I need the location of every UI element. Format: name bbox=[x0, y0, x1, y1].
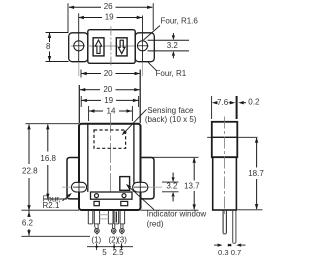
svg-text:(3): (3) bbox=[117, 235, 127, 244]
svg-text:(back) (10 x 5): (back) (10 x 5) bbox=[145, 115, 197, 124]
dimension 3.2 (top view hole height) bbox=[148, 33, 190, 58]
left hole centre extension bbox=[78, 62, 80, 76]
svg-text:(red): (red) bbox=[147, 220, 164, 229]
front view right hole (obround) bbox=[133, 180, 148, 197]
side view right pin bbox=[233, 211, 236, 244]
svg-text:14: 14 bbox=[107, 107, 116, 116]
side view left pin bbox=[223, 211, 226, 234]
top view central body bbox=[88, 30, 135, 64]
tab hole centreline right bbox=[133, 186, 162, 188]
side view parting line bbox=[207, 136, 257, 138]
extension line right (19) / hole centre bbox=[142, 16, 144, 63]
front view window right edge bbox=[133, 125, 135, 192]
pin eyelets bbox=[95, 224, 125, 234]
pin number (1) bbox=[91, 235, 101, 244]
svg-text:(1): (1) bbox=[91, 235, 101, 244]
svg-text:5: 5 bbox=[102, 248, 107, 257]
dimension 14 (front view window width) bbox=[89, 106, 133, 121]
svg-text:2.5: 2.5 bbox=[112, 248, 124, 257]
dimension 16.8 (tab position) bbox=[40, 124, 56, 199]
moulding square left bbox=[94, 201, 99, 205]
dimension 20 (front view width) bbox=[80, 85, 140, 94]
svg-text:0.7: 0.7 bbox=[231, 248, 242, 257]
label Four, R1 bbox=[148, 62, 187, 78]
svg-text:19: 19 bbox=[104, 96, 113, 105]
terminal bar hole 2 bbox=[122, 194, 126, 198]
extension line right (26) bbox=[152, 3, 154, 30]
top view vertical centreline bbox=[110, 27, 112, 67]
svg-text:Indicator window: Indicator window bbox=[147, 210, 207, 219]
svg-text:7.6: 7.6 bbox=[217, 98, 229, 107]
side view vertical centreline bbox=[224, 117, 226, 217]
svg-text:13.7: 13.7 bbox=[184, 181, 200, 190]
svg-text:Sensing face: Sensing face bbox=[147, 106, 194, 115]
front view left tab bbox=[67, 158, 79, 199]
tab hole centreline left bbox=[62, 186, 88, 188]
top view right hole bbox=[137, 41, 148, 51]
dimension 8 (top view width) bbox=[46, 33, 69, 62]
right hole centre extension bbox=[142, 62, 144, 76]
top view right mounting tab bbox=[135, 33, 154, 62]
svg-text:Four, R1: Four, R1 bbox=[156, 69, 187, 78]
indicator window rectangle bbox=[120, 177, 130, 191]
top view left mounting tab bbox=[69, 33, 88, 62]
tab bottom extension line bbox=[44, 198, 67, 200]
side view lower body outline bbox=[213, 157, 237, 210]
label Indicator window (red) bbox=[126, 184, 207, 229]
svg-text:0.3: 0.3 bbox=[218, 248, 229, 257]
front view left hole (obround) bbox=[72, 180, 87, 197]
svg-text:3.2: 3.2 bbox=[166, 181, 178, 190]
dimension 6.2 (pin length) bbox=[22, 211, 34, 236]
terminal bar bbox=[91, 192, 133, 199]
svg-text:18.7: 18.7 bbox=[248, 169, 264, 178]
sensing face dashed rectangle bbox=[94, 130, 126, 148]
front view top-edge extension (left) bbox=[25, 123, 79, 125]
dimension 0.2 (side lip) bbox=[238, 98, 260, 107]
pin numbers (2)(3) bbox=[109, 235, 128, 244]
dimension 20 (top view body length) bbox=[81, 69, 140, 78]
svg-text:3.2: 3.2 bbox=[167, 41, 179, 50]
label Sensing face (back) (10 x 5) bbox=[122, 106, 197, 135]
front view right tab bbox=[141, 158, 155, 199]
tab top extension line bbox=[143, 156, 199, 158]
front view window left edge bbox=[87, 125, 89, 192]
side body bottom extension bbox=[237, 209, 262, 211]
top view horizontal centreline bbox=[71, 45, 149, 47]
dimension 26 (top view overall length) bbox=[69, 2, 153, 11]
svg-text:0.2: 0.2 bbox=[248, 98, 260, 107]
dimension 7.6 (side view width) bbox=[212, 96, 238, 119]
dimension 19 (top view hole pitch) bbox=[78, 13, 142, 22]
extension line left (26) bbox=[67, 3, 69, 32]
dimension 18.7 (side height) bbox=[248, 137, 264, 209]
front view left extension line bbox=[78, 85, 80, 123]
front view vertical centreline bbox=[110, 113, 112, 192]
extension line left (19) / hole centre bbox=[78, 13, 80, 62]
terminal bar hole 1 bbox=[95, 194, 99, 198]
svg-text:16.8: 16.8 bbox=[40, 154, 56, 163]
svg-text:19: 19 bbox=[105, 13, 114, 22]
front view right extension line bbox=[139, 70, 141, 124]
label Four, R2.1 bbox=[43, 193, 72, 210]
dimension 19 (front view hole pitch) bbox=[81, 96, 138, 107]
svg-text:Four, R1.6: Four, R1.6 bbox=[161, 17, 199, 26]
dimension 22.8 (front view height) bbox=[22, 124, 38, 211]
side view head outline bbox=[212, 122, 238, 157]
dimension 3.2 (front hole height) bbox=[162, 173, 179, 202]
dimension 13.7 (tab to bottom) bbox=[184, 157, 200, 210]
svg-text:8: 8 bbox=[46, 42, 51, 51]
receiver window (top view) bbox=[116, 38, 127, 56]
dimension 5 and 2.5 (pin pitch) bbox=[87, 243, 133, 257]
svg-text:26: 26 bbox=[104, 2, 113, 11]
svg-text:20: 20 bbox=[103, 85, 112, 94]
front view terminal pins bbox=[88, 211, 124, 224]
receiver down-arrow mark bbox=[118, 40, 125, 53]
front view body outline bbox=[79, 124, 141, 210]
top view left hole bbox=[73, 41, 84, 51]
svg-text:20: 20 bbox=[104, 69, 113, 78]
pin end extension line bbox=[21, 235, 90, 237]
svg-text:6.2: 6.2 bbox=[22, 219, 34, 228]
emitter up-arrow mark bbox=[95, 40, 102, 53]
middle pin centre mark bbox=[115, 212, 117, 223]
moulding square right bbox=[121, 201, 128, 205]
svg-text:R2.1: R2.1 bbox=[43, 201, 60, 210]
body bottom extension (left) bbox=[21, 209, 79, 211]
label Four, R1.6 bbox=[144, 17, 199, 41]
body bottom extension (right) bbox=[141, 209, 199, 211]
svg-text:22.8: 22.8 bbox=[22, 167, 38, 176]
dimension 0.3 0.7 (pin thickness) bbox=[214, 244, 246, 257]
emitter window (top view) bbox=[93, 38, 104, 56]
